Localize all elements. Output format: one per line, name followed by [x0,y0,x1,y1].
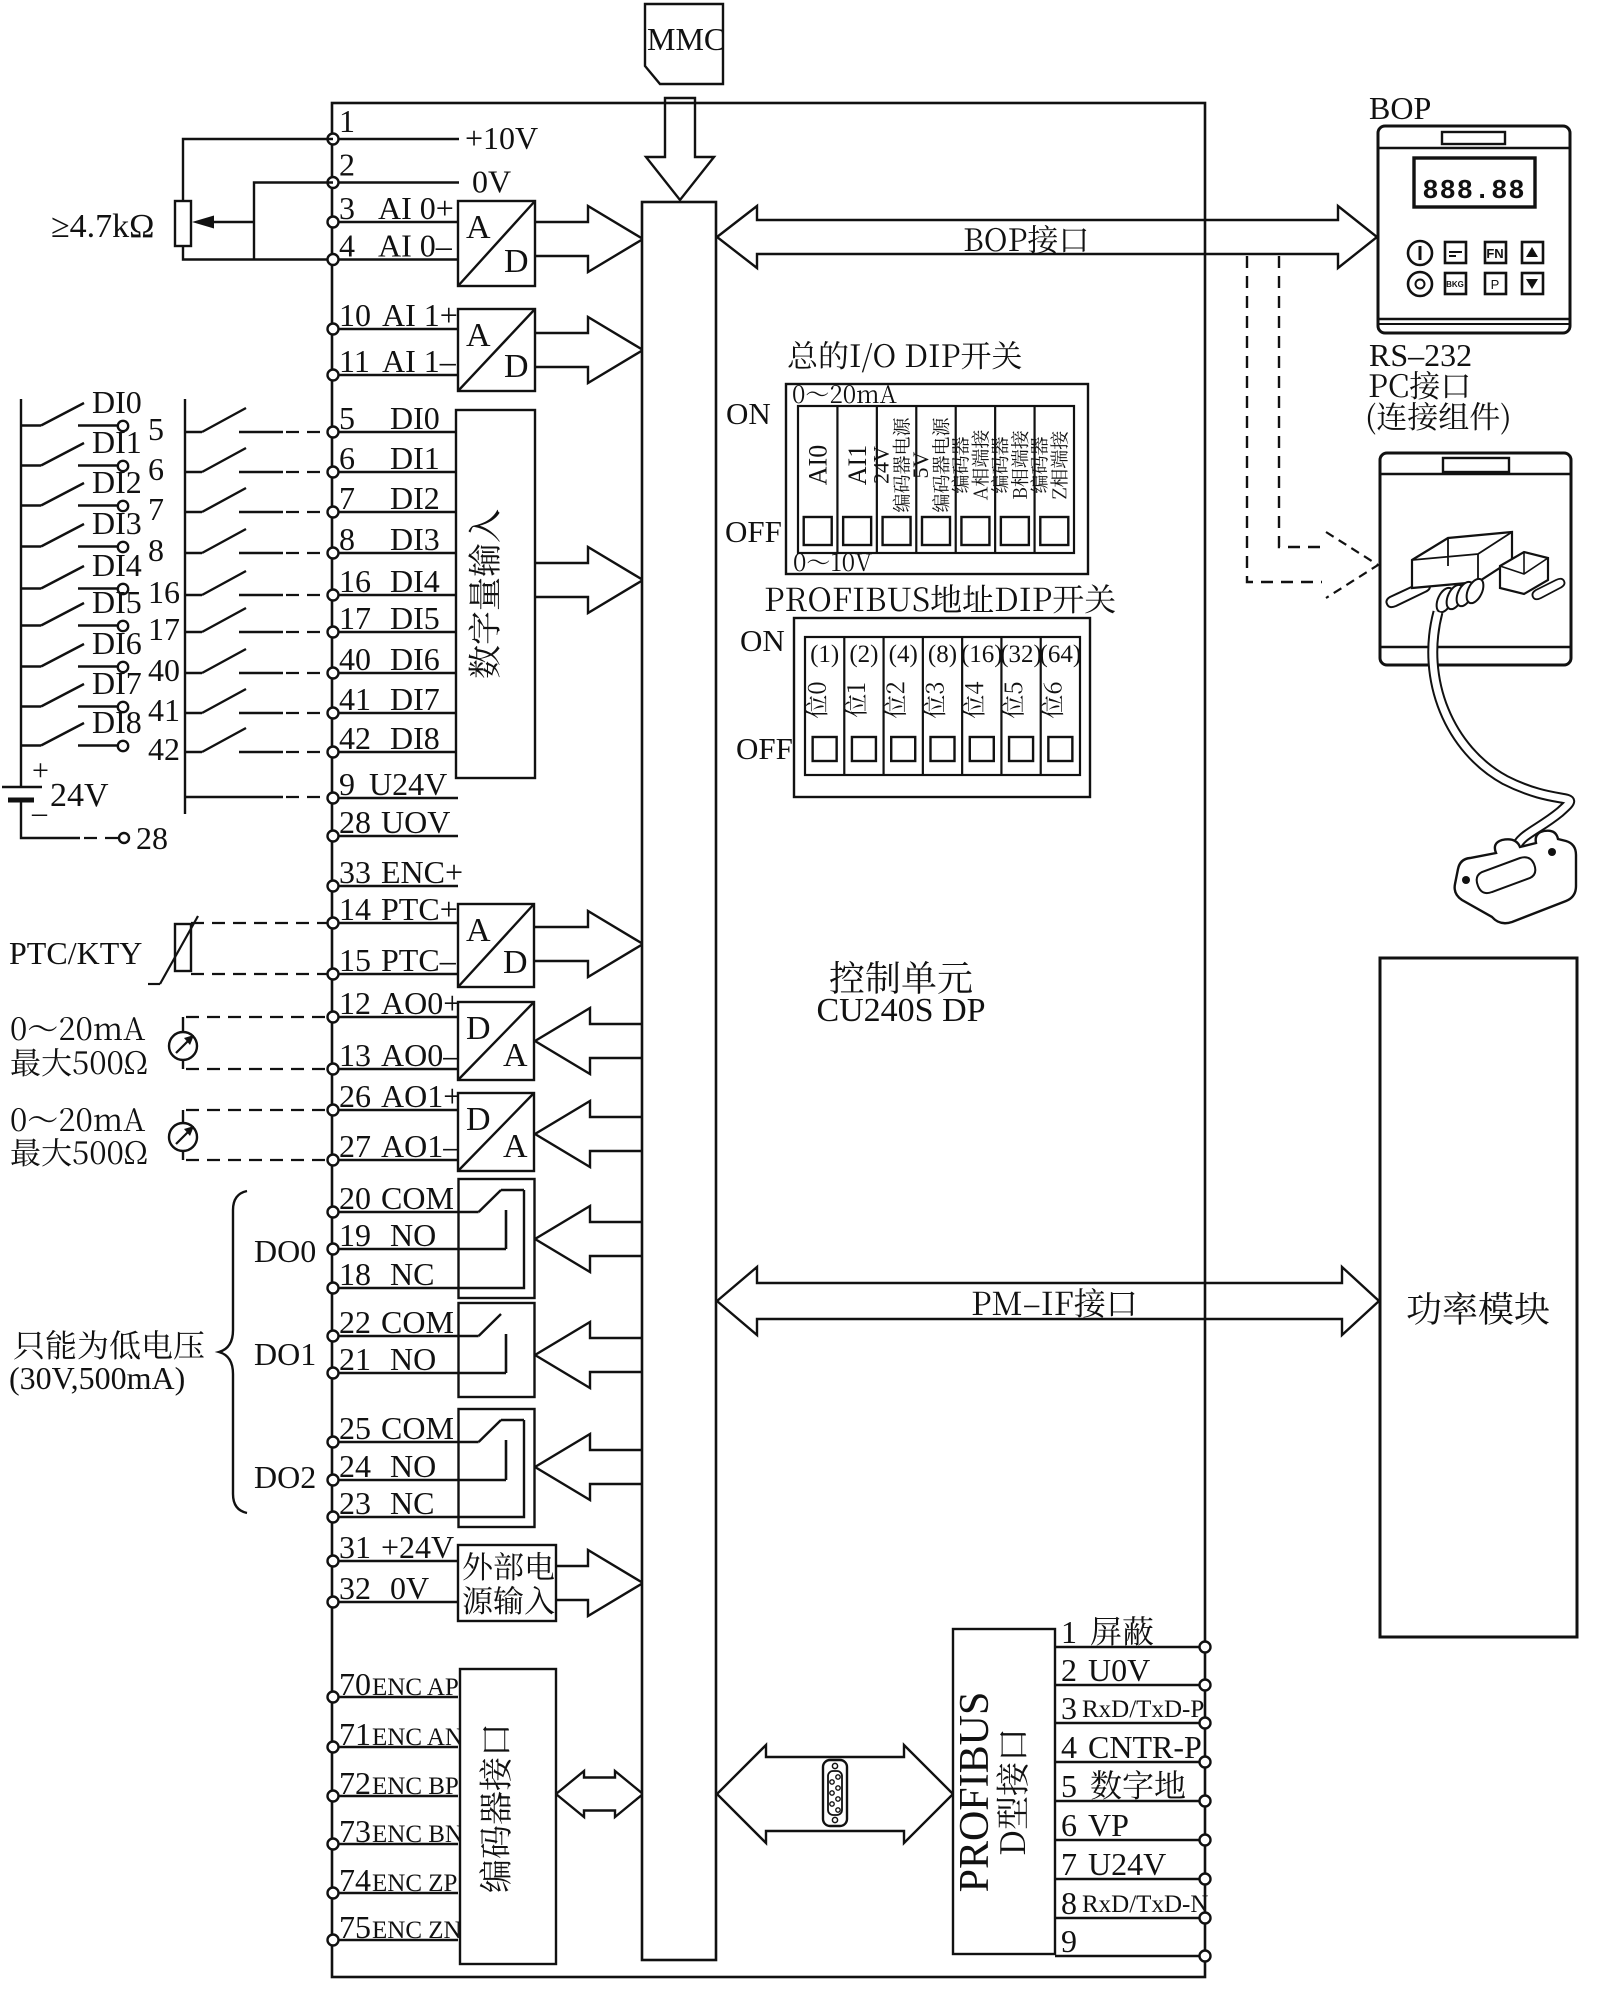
svg-text:ON: ON [740,623,785,658]
switch - external digital input DI7 contact (left bank) [21,665,180,728]
MMC memory card [645,4,725,84]
wire - terminal 18 NC line [333,1287,458,1289]
svg-text:(30V,500mA): (30V,500mA) [9,1360,185,1396]
label - terminal 7 DI2 [339,480,440,516]
wire - terminal 33 ENC+ line [333,885,458,887]
svg-text:OFF: OFF [736,731,793,766]
svg-text:MMC: MMC [647,21,725,57]
svg-text:26: 26 [339,1078,371,1114]
wire - terminal 40 DI6 line [333,672,458,674]
svg-text:AO0+: AO0+ [381,985,461,1021]
svg-text:28: 28 [339,804,371,840]
label - terminal 72 ENC BP [339,1765,459,1801]
svg-text:A: A [466,912,491,949]
switch S2.6 - address bit (32) 位5 [1000,637,1042,775]
svg-text:COM: COM [381,1180,454,1216]
wire - PROFIBUS pin 6 VP line [1055,1839,1205,1841]
switch S2 - PROFIBUS address DIP switch block [736,618,1090,797]
label - terminal 12 AO0+ [339,985,461,1021]
svg-text:NO: NO [390,1217,436,1253]
svg-text:DI2: DI2 [92,464,142,500]
relay K2 - output DO1 NO contact [459,1303,535,1397]
svg-text:AI 1+: AI 1+ [382,297,458,333]
svg-text:A: A [503,1037,528,1074]
svg-text:AO1+: AO1+ [381,1078,461,1114]
svg-text:8: 8 [339,521,355,557]
label - terminal 41 DI7 [339,681,440,717]
svg-text:VP: VP [1088,1807,1129,1843]
node - PROFIBUS pin 2 terminal circle [1200,1680,1211,1691]
wire - terminal 72 ENC BP line [333,1795,458,1797]
label - terminal 23 NC [339,1485,434,1521]
svg-text:22: 22 [339,1304,371,1340]
wire - terminal 12 AO0+ line [333,1016,458,1018]
wire - PROFIBUS pin 2 U0V line [1055,1684,1205,1686]
switch S2.7 - address bit (64) 位6 [1040,637,1082,775]
node - PROFIBUS pin 5 terminal circle [1200,1796,1211,1807]
switch S2.3 - address bit (4) 位2 [884,637,918,775]
label - terminal 16 DI4 [339,563,440,599]
signal arrow - encoder interface to bus (bidirectional) [556,1771,643,1817]
label - terminal 8 DI3 [339,521,440,557]
switch - external digital input DI1 contact (left bank) [21,424,164,487]
node - terminal 17 circle on strip [328,627,339,638]
svg-text:+10V: +10V [465,120,538,156]
svg-text:+: + [32,754,49,787]
svg-text:24: 24 [339,1448,371,1484]
wire - terminal 20 COM line [333,1211,458,1213]
svg-text:(1): (1) [810,641,839,668]
svg-text:PTC/KTY: PTC/KTY [9,935,142,971]
wire - dashed RS-232 link from BOP arrow down (line a) [1247,256,1322,582]
wire - battery negative to node 28 [21,800,118,838]
label - terminal 15 PTC– [339,942,457,978]
connector XS2 - DB9 plug at cable end [1455,831,1576,924]
node - terminal 19 circle on strip [328,1244,339,1255]
label - PROFIBUS pin 7 U24V [1061,1846,1166,1882]
svg-text:+24V: +24V [381,1529,454,1565]
label - terminal 28 UOV [339,804,450,840]
svg-text:DO1: DO1 [254,1336,316,1372]
node - terminal 74 circle on strip [328,1888,339,1899]
svg-text:AI 0+: AI 0+ [378,190,454,226]
node - terminal 12 circle on strip [328,1012,339,1023]
label - terminal 75 ENC ZN [339,1909,462,1945]
block - external power input 外部电源输入 [458,1545,556,1621]
svg-text:UOV: UOV [381,804,450,840]
svg-text:A: A [466,317,491,354]
connector - RS232 adapter plug 3D drawing inside kit [1386,532,1564,615]
switch - digital input DI1 contact (middle bank) with dashed link to terminal [185,448,327,472]
svg-text:(32): (32) [1000,641,1042,668]
battery 24V supply for digital inputs (+) [2,754,109,829]
wire - potentiometer bottom to terminal 4 (AI 0-) [183,246,327,260]
relay K3 - output DO2 changeover contact [459,1409,535,1527]
svg-text:DI0: DI0 [92,384,142,420]
button - BOP reverse [1445,273,1466,294]
label - terminal 5 DI0 [339,400,440,436]
svg-text:41: 41 [339,681,371,717]
svg-text:40: 40 [148,652,180,688]
node - external connection 28 [119,820,168,856]
svg-text:28: 28 [136,820,168,856]
switch S1.2 - DIP position AI1 [837,406,872,553]
svg-text:6: 6 [1061,1807,1077,1843]
node - terminal 22 circle on strip [328,1331,339,1342]
svg-text:17: 17 [148,611,180,647]
svg-text:74: 74 [339,1862,371,1898]
svg-text:AI 1–: AI 1– [382,343,457,379]
svg-text:1: 1 [1061,1614,1077,1650]
wire - PROFIBUS pin 1 屏蔽 line [1055,1646,1205,1648]
svg-text:DO2: DO2 [254,1459,316,1495]
label - terminal 42 DI8 [339,720,440,756]
svg-text:7: 7 [339,480,355,516]
node - PROFIBUS pin 9 terminal circle [1200,1951,1211,1962]
converter U4 - D/A for analog output AO0 [458,1002,534,1080]
svg-text:8: 8 [1061,1885,1077,1921]
label - relay group DO2 [254,1459,316,1495]
svg-text:NO: NO [390,1448,436,1484]
node - terminal 7 circle on strip [328,507,339,518]
svg-text:24V: 24V [50,777,109,814]
label - BOP [1369,90,1431,126]
svg-text:DI3: DI3 [92,505,142,541]
svg-text:A: A [503,1128,528,1165]
signal arrow - external power input to bus [556,1550,643,1616]
node - terminal 6 circle on strip [328,467,339,478]
node - terminal 73 circle on strip [328,1839,339,1850]
svg-text:(64): (64) [1040,641,1082,668]
label - terminal 13 AO0– [339,1037,460,1073]
signal arrow - PTC A/D to bus [534,911,643,977]
signal arrow - PM-IF interface to power module (bidirectional) [717,1267,1379,1335]
svg-text:4: 4 [1061,1729,1077,1765]
node - PROFIBUS pin 6 terminal circle [1200,1835,1211,1846]
switch S2.4 - address bit (8) 位3 [923,637,957,775]
label - AO1 load rating [11,1108,146,1166]
svg-text:D: D [503,944,528,981]
svg-text:COM: COM [381,1304,454,1340]
node - terminal 70 circle on strip [328,1692,339,1703]
signal arrow - PROFIBUS D-type interface (bidirectional) [717,1745,953,1843]
svg-text:9: 9 [339,766,355,802]
svg-text:D: D [504,348,529,385]
label - relay group DO0 [254,1233,316,1269]
wire - terminal 8 DI3 line [333,552,458,554]
wire - terminal 3 AI 0+ line [333,221,458,223]
wire - terminal 31 +24V line [333,1560,458,1562]
svg-text:DI3: DI3 [390,521,440,557]
display - BOP seven segment display 888.88 [1414,158,1535,207]
label - PROFIBUS pin 4 CNTR-P [1061,1729,1202,1765]
svg-text:BOP: BOP [1369,90,1431,126]
svg-text:P: P [1491,277,1500,292]
svg-text:BKG: BKG [1446,280,1464,289]
node - terminal 14 circle on strip [328,918,339,929]
svg-text:≥4.7kΩ: ≥4.7kΩ [51,208,154,245]
thermistor RT1 - PTC/KTY motor temperature sensor [9,916,327,984]
svg-text:31: 31 [339,1529,371,1565]
switch - digital input DI2 contact (middle bank) with dashed link to terminal [185,488,327,512]
switch - external digital input DI3 contact (left bank) [21,505,164,568]
wire - terminal 15 PTC– line [333,973,458,975]
svg-text:DI4: DI4 [92,547,142,583]
control unit CU240S DP enclosure [332,103,1205,1977]
node - terminal 23 circle on strip [328,1512,339,1523]
wire - PROFIBUS pin 5 数字地 line [1055,1800,1205,1802]
label - PROFIBUS pin 8 RxD/TxD-N [1061,1885,1208,1921]
switch - digital input DI3 contact (middle bank) with dashed link to terminal [185,529,327,553]
wire - terminal 6 DI1 line [333,471,458,473]
switch - external digital input DI2 contact (left bank) [21,464,164,527]
svg-text:42: 42 [339,720,371,756]
switch S1 - main I/O DIP switch block [725,384,1088,574]
svg-text:27: 27 [339,1128,371,1164]
svg-text:6: 6 [339,440,355,476]
signal arrow - MMC card slot down into bus interface [646,98,714,200]
wire - terminal 4 AI 0– line [333,258,458,260]
svg-text:D: D [466,1101,491,1138]
wire - terminal 14 PTC+ line [333,922,458,924]
svg-text:0V: 0V [472,164,511,200]
wire - middle bank bus to terminal 9 U24V (dashed) [185,796,327,798]
switch - external digital input DI8 contact (left bank) [21,704,180,767]
svg-text:5: 5 [1061,1768,1077,1804]
node - terminal 10 circle on strip [328,324,339,335]
wire - terminal 74 ENC ZP line [333,1892,458,1894]
label - relay group DO1 [254,1336,316,1372]
svg-text:DI2: DI2 [390,480,440,516]
svg-text:D: D [466,1010,491,1047]
switch - digital input DI7 contact (middle bank) with dashed link to terminal [185,689,327,713]
label - terminal 70 ENC AP [339,1666,459,1702]
svg-text:5V: 5V [908,451,933,478]
svg-text:75: 75 [339,1909,371,1945]
panel - BOP operator panel body [1378,126,1570,333]
switch - external digital input DI4 contact (left bank) [21,547,180,610]
converter U1 - A/D for analog input AI0 [458,201,535,286]
svg-text:NC: NC [390,1256,434,1292]
meter PA2 - analog output AO1 load (0-20mA) [169,1110,327,1160]
label - terminal 10 AI 1+ [339,297,458,333]
svg-text:RxD/TxD-P: RxD/TxD-P [1082,1696,1204,1723]
node - terminal 31 circle on strip [328,1556,339,1567]
node - PROFIBUS pin 3 terminal circle [1200,1718,1211,1729]
relay K1 - output DO0 changeover contact [459,1179,535,1298]
switch - digital input DI4 contact (middle bank) with dashed link to terminal [185,571,327,595]
switch - digital input DI8 contact (middle bank) with dashed link to terminal [185,728,327,752]
node - terminal 41 circle on strip [328,708,339,719]
node - terminal 24 circle on strip [328,1475,339,1486]
wire - PROFIBUS pin 3 RxD/TxD-P line [1055,1722,1205,1724]
svg-text:DI0: DI0 [390,400,440,436]
node - PROFIBUS pin 7 terminal circle [1200,1874,1211,1885]
node - terminal 26 circle on strip [328,1105,339,1116]
wire - terminal 11 AI 1– line [333,374,458,376]
node - terminal 42 circle on strip [328,747,339,758]
signal arrow - BOP interface (bidirectional) [717,206,1377,268]
label - terminal 26 AO1+ [339,1078,461,1114]
svg-text:14: 14 [339,891,371,927]
wire - terminal 32 0V line [333,1601,458,1603]
svg-text:DI6: DI6 [92,625,142,661]
label - terminal 74 ENC ZP [339,1862,457,1898]
svg-text:18: 18 [339,1256,371,1292]
wire - terminal 28 UOV line [333,835,458,837]
node - terminal 11 circle on strip [328,370,339,381]
svg-text:5: 5 [148,411,164,447]
label - terminal 1 +10V [339,103,538,156]
button - BOP stop (O) [1408,272,1432,296]
node - terminal 20 circle on strip [328,1207,339,1218]
wire - terminal 7 DI2 line [333,511,458,513]
button - BOP jog [1445,242,1466,263]
label - PROFIBUS pin 1 屏蔽 [1061,1614,1153,1650]
label - PROFIBUS pin 6 VP [1061,1807,1129,1843]
switch S2.1 - address bit (1) 位0 [806,641,840,761]
svg-text:25: 25 [339,1410,371,1446]
svg-text:3: 3 [1061,1690,1077,1726]
converter U5 - D/A for analog output AO1 [458,1093,534,1171]
wire - terminal 42 DI8 line [333,751,458,753]
switch - digital input DI0 contact (middle bank) with dashed link to terminal [185,408,327,432]
svg-text:888.88: 888.88 [1422,177,1525,207]
switch - digital input DI6 contact (middle bank) with dashed link to terminal [185,649,327,673]
svg-text:RS–232: RS–232 [1369,337,1472,373]
label - terminal 4 AI 0– [339,228,453,264]
svg-text:RxD/TxD-N: RxD/TxD-N [1082,1891,1208,1918]
label - RS-232 PC interface connection kit [1368,337,1509,435]
signal arrow - analog input AI0 A/D to bus [535,206,643,272]
node - PROFIBUS pin 4 terminal circle [1200,1757,1211,1768]
svg-text:(16): (16) [961,641,1003,668]
svg-text:20: 20 [339,1180,371,1216]
node - terminal 40 circle on strip [328,668,339,679]
wire - terminal 25 COM line [333,1441,458,1443]
label - terminal 19 NO [339,1217,436,1253]
svg-text:NC: NC [390,1485,434,1521]
svg-text:0V: 0V [390,1570,429,1606]
wire - terminal 23 NC line [333,1516,458,1518]
node - terminal 8 circle on strip [328,548,339,559]
signal arrow - digital inputs block to bus [535,547,643,613]
button - BOP FN [1485,242,1506,263]
node - terminal 9 circle on strip [328,793,339,804]
button - BOP P [1485,273,1506,294]
svg-text:71: 71 [339,1716,371,1752]
wire - terminal 2 0V line [333,181,459,183]
block - power module 功率模块 [1380,958,1577,1637]
wire - terminal 17 DI5 line [333,631,458,633]
node - terminal 33 circle on strip [328,881,339,892]
switch S1.1 - DIP position AI0 [804,445,833,545]
svg-text:ON: ON [726,396,771,431]
node - terminal 4 circle on strip [328,254,339,265]
svg-text:PTC–: PTC– [381,942,457,978]
label - potentiometer value >=4.7k ohm [51,208,154,245]
wire - terminal 22 COM line [333,1335,458,1337]
svg-text:AO0–: AO0– [381,1037,460,1073]
svg-text:9: 9 [1061,1923,1077,1959]
label - terminal 71 ENC AN [339,1716,463,1752]
node - terminal 75 circle on strip [328,1935,339,1946]
svg-text:2: 2 [1061,1652,1077,1688]
switch S1.5 - DIP position 编码器 A相端接 [951,406,989,553]
switch - external digital input DI5 contact (left bank) [21,584,180,647]
svg-text:70: 70 [339,1666,371,1702]
label - control unit name 控制单元 [816,961,985,1029]
wire - terminal 71 ENC AN line [333,1746,458,1748]
wire - terminal 13 AO0– line [333,1068,458,1070]
wire - terminal 21 NO line [333,1372,458,1374]
wire - potentiometer wiper to 0V branch with arrowhead [192,216,254,229]
brace - low voltage restriction covers DO0..DO2 [219,1191,247,1513]
signal arrow - bus to relay output DO2 [535,1434,643,1500]
node - PROFIBUS pin 8 terminal circle [1200,1913,1211,1924]
node - PROFIBUS pin 1 terminal circle [1200,1642,1211,1653]
svg-text:PROFIBUS: PROFIBUS [952,1692,998,1893]
wire - terminal 24 NO line [333,1479,458,1481]
wire - terminal 41 DI7 line [333,712,458,714]
meter PA1 - analog output AO0 load (0-20mA) [169,1017,327,1069]
switch S1.7 - DIP position 编码器 Z相端接 [1030,406,1068,553]
wire - terminal 2 (0V) junction to bottom wire [254,183,333,260]
internal bus bar of control unit [642,202,716,1960]
node - terminal 21 circle on strip [328,1368,339,1379]
node - terminal 1 circle on strip [328,134,339,145]
svg-text:DI5: DI5 [390,600,440,636]
wire - PROFIBUS pin 9 line [1055,1955,1205,1957]
node - terminal 28 circle on strip [328,831,339,842]
connector XS1 - DB9 socket symbol inside PROFIBUS arrow [823,1760,847,1826]
block - digital inputs 数字量输入 [456,410,535,778]
svg-text:OFF: OFF [725,514,782,549]
label - terminal 40 DI6 [339,641,440,677]
block - PROFIBUS D-type interface [952,1629,1055,1954]
label - terminal 31 +24V [339,1529,454,1565]
switch S1.4 - DIP position 5V 编码器电源 [908,406,950,553]
svg-text:ENC ZP: ENC ZP [372,1870,457,1897]
svg-text:40: 40 [339,641,371,677]
signal arrow - bus to relay output DO1 [535,1322,643,1388]
node - terminal 27 circle on strip [328,1155,339,1166]
signal arrow - bus to relay output DO0 [535,1206,643,1272]
svg-text:D: D [504,243,529,280]
svg-text:33: 33 [339,854,371,890]
svg-text:DI1: DI1 [92,424,142,460]
switch S2.2 - address bit (2) 位1 [844,637,878,775]
wire - middle switch bank bus [184,399,186,814]
svg-text:PTC+: PTC+ [381,891,458,927]
wire - terminal 1 +10V line [333,138,459,140]
signal arrow - analog input AI1 A/D to bus [535,317,643,383]
svg-text:ENC BP: ENC BP [372,1773,459,1800]
svg-text:ENC+: ENC+ [381,854,463,890]
svg-text:73: 73 [339,1813,371,1849]
wire - terminal 1 (+10V) to potentiometer top [183,139,333,201]
svg-text:23: 23 [339,1485,371,1521]
node - terminal 3 circle on strip [328,217,339,228]
svg-text:(4): (4) [889,641,918,668]
label - title of PROFIBUS address DIP switch [766,584,1115,613]
node - terminal 71 circle on strip [328,1742,339,1753]
label - terminal 18 NC [339,1256,434,1292]
label - PROFIBUS pin 3 RxD/TxD-P [1061,1690,1204,1726]
svg-text:(8): (8) [928,641,957,668]
svg-text:6: 6 [148,451,164,487]
wire - PROFIBUS pin 7 U24V line [1055,1878,1205,1880]
